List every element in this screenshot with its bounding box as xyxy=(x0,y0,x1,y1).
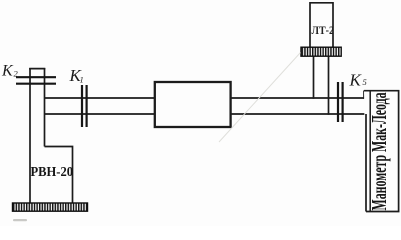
svg-text:5: 5 xyxy=(363,77,367,87)
wire: gauge stem right xyxy=(328,57,330,115)
gauge tube LT-2 body xyxy=(310,3,333,47)
wire: duct top line, right segment xyxy=(231,97,365,99)
valve K5 xyxy=(338,82,343,122)
wire: duct bottom line, left segment xyxy=(45,113,156,115)
McLeod gauge box xyxy=(364,91,399,212)
wire: pump riser left line xyxy=(29,68,31,204)
wire: drop pipe to gauge bottom xyxy=(365,114,367,212)
svg-text:ЛТ-2: ЛТ-2 xyxy=(312,25,335,37)
svg-text:РВН-20: РВН-20 xyxy=(31,164,74,179)
svg-text:К: К xyxy=(349,71,363,90)
valve K1 xyxy=(82,85,87,127)
wire: duct top line, left segment xyxy=(45,97,156,99)
scan smudge bottom-left xyxy=(13,219,27,221)
pump base (hatched ground bar) xyxy=(13,203,88,211)
svg-text:1: 1 xyxy=(80,75,84,85)
wire: duct bottom line, right segment xyxy=(231,113,367,115)
wire: riser top bend xyxy=(29,68,45,70)
valve K2 xyxy=(16,77,56,84)
gauge flange (hatched collar) xyxy=(301,47,341,56)
trap reservoir (center expansion chamber) xyxy=(155,82,231,127)
wire: step from duct up to gauge box top xyxy=(363,91,365,99)
McLeod gauge box left edge xyxy=(369,91,371,212)
wire: pump riser right line xyxy=(44,68,46,147)
pump RVN-20 box xyxy=(45,147,73,204)
svg-text:Манометр Мак-Леода: Манометр Мак-Леода xyxy=(367,92,391,210)
svg-text:К: К xyxy=(1,63,14,80)
scan crease diagonal xyxy=(219,53,301,143)
wire: gauge stem left xyxy=(313,57,315,99)
